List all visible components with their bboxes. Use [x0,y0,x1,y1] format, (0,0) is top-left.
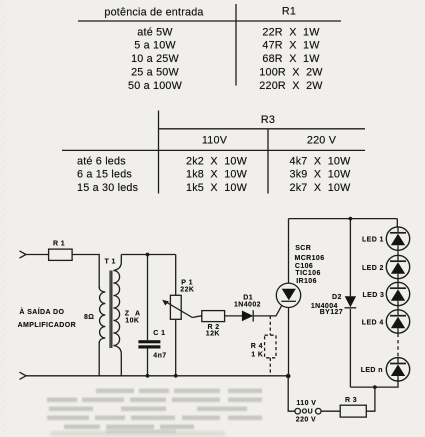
faint left edge marks [0,0,7,437]
wire R4 dashed drop [269,316,271,335]
wire R1 to transformer primary [72,255,99,289]
svg-text:MCR106: MCR106 [295,255,325,262]
svg-text:3k9 X 10W: 3k9 X 10W [289,169,351,181]
LED 4 [386,310,409,333]
transformer T1 secondary winding [113,255,121,376]
wire R2 to D1 [224,315,242,317]
svg-text:68R X 1W: 68R X 1W [262,53,320,65]
svg-text:R1: R1 [282,5,296,17]
LED 1 [386,227,409,250]
SCR cathode bar [281,300,296,302]
svg-text:até 6 leds: até 6 leds [77,155,126,167]
svg-text:1k5 X 10W: 1k5 X 10W [186,182,248,194]
svg-text:1 K: 1 K [251,352,263,359]
faint bottom band [50,431,225,436]
wire wiper to R2 [192,316,202,318]
top bus wire [289,218,398,220]
svg-text:220 V: 220 V [296,416,316,423]
terminal circle right [316,408,322,414]
svg-text:15 a 30 leds: 15 a 30 leds [77,182,139,194]
svg-text:até 5W: até 5W [137,26,173,38]
diode D1 [242,311,253,322]
svg-text:47R X 1W: 47R X 1W [262,40,320,52]
table2 rule under voltage headers [62,149,365,151]
svg-text:LED n: LED n [361,367,383,374]
wire D2 bottom [349,309,351,387]
node D2 top junction [349,217,353,221]
svg-text:220 V: 220 V [307,135,337,147]
wire LED2-LED3 [397,279,399,283]
svg-text:6 a 15 leds: 6 a 15 leds [77,169,132,181]
svg-text:4k7 X 10W: 4k7 X 10W [289,155,351,167]
svg-text:4n7: 4n7 [153,353,166,360]
SCR triangle [282,289,296,301]
LED 2 [386,255,409,278]
svg-text:D2: D2 [332,294,342,301]
svg-text:R 3: R 3 [345,397,357,404]
svg-text:C 1: C 1 [153,330,165,337]
svg-text:A: A [135,310,140,317]
svg-text:5 a 10W: 5 a 10W [134,40,176,52]
wire D1 to gate [253,305,282,316]
svg-text:110V: 110V [202,135,228,147]
svg-text:10 a 25W: 10 a 25W [131,53,179,65]
LED 3 [386,282,409,305]
svg-text:OU: OU [302,409,313,416]
node C1 bottom junction [146,374,150,378]
svg-text:2k2 X 10W: 2k2 X 10W [186,155,248,167]
wire P1 top [175,255,177,296]
svg-text:220R X 2W: 220R X 2W [259,80,323,92]
transformer core [109,271,111,349]
svg-text:Z: Z [125,310,130,317]
wire primary bottom [98,342,100,376]
svg-text:22R X 1W: 22R X 1W [262,26,320,38]
wire secondary top to P1 [121,254,175,256]
svg-text:C106: C106 [295,263,313,270]
svg-text:D1: D1 [243,294,253,301]
svg-text:BY127: BY127 [320,309,343,316]
capacitor C1 [138,340,160,343]
svg-text:R3: R3 [261,114,275,126]
svg-text:12K: 12K [206,331,220,338]
table2 vertical divider 1 [158,111,160,194]
SCR anode wire [288,219,290,284]
potentiometer P1 wiper arrow [166,302,192,317]
faint bleed-through text bottom-left [47,389,262,434]
svg-text:25 a 50W: 25 a 50W [131,67,179,79]
node P1 bottom junction [174,374,178,378]
dashed wire LED4-LEDn [397,334,399,358]
svg-text:1k8 X 10W: 1k8 X 10W [186,169,248,181]
transformer T1 primary winding [99,287,105,343]
svg-text:LED 2: LED 2 [362,265,384,272]
SCR U1 circle [276,283,300,307]
wire P1 bottom [175,319,177,376]
LED n [386,358,409,381]
svg-text:8Ω: 8Ω [84,314,94,321]
diode D2 [345,296,356,307]
wire top bus to LED1 [396,219,398,227]
input terminal bottom [20,372,27,379]
resistor R4 dashed [265,335,276,358]
svg-text:LED 1: LED 1 [362,237,384,244]
svg-text:22K: 22K [180,286,194,293]
wire D2 branch [349,219,351,297]
svg-text:AMPLIFICADOR: AMPLIFICADOR [18,322,76,329]
svg-text:À SAÍDA DO: À SAÍDA DO [19,307,64,316]
wire R4 bottom dashed [269,358,271,376]
svg-text:10K: 10K [125,317,139,324]
node R3 riser junction [373,385,377,389]
wire C1 branch down [147,255,149,341]
wire R3 riser [366,387,375,411]
svg-text:IR106: IR106 [296,278,317,285]
svg-text:2k7 X 10W: 2k7 X 10W [289,182,351,194]
resistor R2 [202,311,225,322]
resistor R3 [340,405,366,417]
wire R3 to terminal [321,410,340,412]
resistor R1 [49,249,73,260]
table2 rule under R3 [159,128,366,130]
svg-text:SCR: SCR [295,245,311,252]
svg-text:potência de entrada: potência de entrada [104,7,203,19]
wire LED1-LED2 [397,250,399,255]
svg-text:50 a 100W: 50 a 100W [128,80,183,92]
svg-text:R 1: R 1 [53,240,65,247]
svg-text:R 4: R 4 [251,343,263,350]
terminal circle left [295,408,301,414]
potentiometer P1 body [170,295,181,319]
svg-text:T 1: T 1 [105,259,116,266]
bottom bus wire [26,375,288,377]
input terminal top [20,251,27,258]
wire LED3-LED4 [397,306,399,310]
svg-text:110 V: 110 V [296,400,316,407]
table1 vertical divider [235,4,237,86]
table1 header rule [78,20,341,22]
svg-text:100R X 2W: 100R X 2W [259,67,323,79]
svg-text:1N4002: 1N4002 [234,301,261,308]
wire left terminal up to bus [288,376,295,411]
node C1 top junction [146,253,150,257]
wire input to R1 [26,254,49,256]
SCR cathode wire [288,308,290,376]
node bottom bus SCR junction [286,374,291,379]
svg-text:LED 3: LED 3 [363,292,385,299]
svg-text:LED 4: LED 4 [362,319,384,326]
wire C1 bottom [147,349,149,376]
wire LEDn bottom corner [350,381,398,387]
svg-text:TIC106: TIC106 [295,270,320,277]
table2 vertical divider 2 [267,129,269,194]
